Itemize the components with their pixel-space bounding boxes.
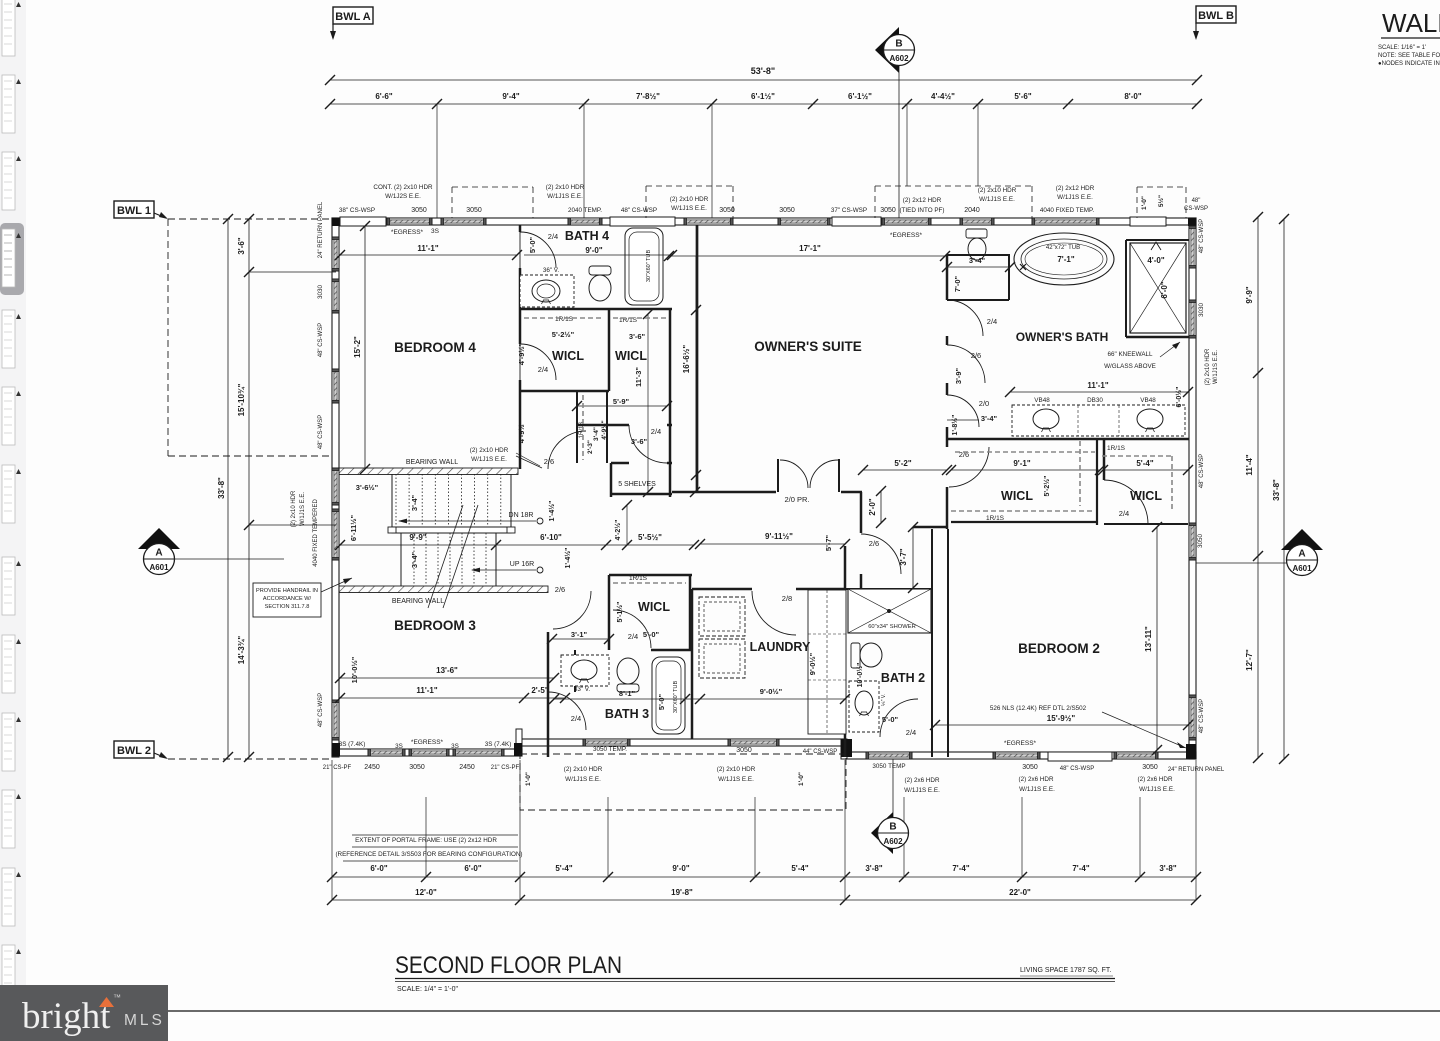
svg-text:A601: A601 <box>1292 564 1312 573</box>
svg-text:W/1J1S E.E.: W/1J1S E.E. <box>1057 194 1093 201</box>
svg-text:4'-4½": 4'-4½" <box>931 92 955 101</box>
svg-text:4'-2½": 4'-2½" <box>614 520 622 541</box>
svg-text:30"X60" TUB: 30"X60" TUB <box>673 681 679 714</box>
svg-text:DB30: DB30 <box>1087 397 1103 404</box>
svg-text:9'-0½": 9'-0½" <box>808 652 817 675</box>
svg-text:BWL A: BWL A <box>335 11 370 23</box>
svg-text:36" V.: 36" V. <box>543 267 560 274</box>
svg-text:3'-6": 3'-6" <box>629 332 646 341</box>
svg-text:33'-8": 33'-8" <box>217 477 226 499</box>
svg-text:BATH 4: BATH 4 <box>565 229 609 243</box>
marker A/A601 left <box>174 558 284 560</box>
svg-text:(2) 2x6 HDR: (2) 2x6 HDR <box>1138 776 1173 783</box>
svg-text:BEDROOM 4: BEDROOM 4 <box>394 340 476 355</box>
svg-text:3050: 3050 <box>466 207 482 214</box>
svg-text:15'-2": 15'-2" <box>353 336 362 358</box>
svg-text:*EGRESS*: *EGRESS* <box>391 229 424 236</box>
svg-text:3050: 3050 <box>736 747 752 754</box>
svg-text:WICL: WICL <box>552 349 584 363</box>
svg-text:5'-0": 5'-0" <box>528 236 537 253</box>
svg-text:3'-7": 3'-7" <box>899 548 908 565</box>
svg-text:9'-9": 9'-9" <box>1245 286 1254 303</box>
svg-text:(REFERENCE DETAIL 3/S503 FOR B: (REFERENCE DETAIL 3/S503 FOR BEARING CON… <box>335 851 522 858</box>
top wall windows <box>387 218 432 225</box>
svg-text:SCALE: 1/4" = 1'-0": SCALE: 1/4" = 1'-0" <box>397 986 458 993</box>
doors <box>520 232 556 268</box>
svg-text:(2) 2x6 HDR: (2) 2x6 HDR <box>1019 776 1054 783</box>
svg-text:48": 48" <box>1192 198 1201 204</box>
svg-text:11'-1": 11'-1" <box>1087 381 1108 390</box>
svg-text:(2) 2x10 HDR: (2) 2x10 HDR <box>291 490 297 527</box>
svg-text:SCALE: 1/16" = 1': SCALE: 1/16" = 1' <box>1378 45 1426 51</box>
svg-text:W/1J2S E.E.: W/1J2S E.E. <box>385 193 421 200</box>
svg-text:2450: 2450 <box>459 764 475 771</box>
svg-text:9'-1": 9'-1" <box>1013 459 1030 468</box>
svg-text:3'-4": 3'-4" <box>969 256 986 265</box>
svg-text:6'-0½": 6'-0½" <box>1175 387 1183 408</box>
svg-text:CS-WSP: CS-WSP <box>1184 206 1208 212</box>
svg-text:(2) 2x10 HDR: (2) 2x10 HDR <box>546 184 585 191</box>
svg-text:(TIED INTO PF): (TIED INTO PF) <box>899 207 944 214</box>
svg-text:5½": 5½" <box>1157 195 1165 207</box>
svg-text:BEDROOM 3: BEDROOM 3 <box>394 618 476 633</box>
svg-text:2'-5": 2'-5" <box>531 686 548 695</box>
svg-text:BEARING WALL: BEARING WALL <box>392 598 444 605</box>
bath3 fixtures <box>561 655 609 686</box>
svg-text:3'-8": 3'-8" <box>1159 864 1176 873</box>
svg-text:3'-9": 3'-9" <box>954 367 963 384</box>
svg-text:1'-0": 1'-0" <box>525 772 532 786</box>
svg-text:3050: 3050 <box>1197 534 1204 549</box>
svg-text:6'-1½": 6'-1½" <box>751 92 775 101</box>
svg-text:VB48: VB48 <box>1034 397 1050 404</box>
svg-text:1R/1S: 1R/1S <box>1107 445 1126 452</box>
svg-text:A: A <box>1298 549 1305 560</box>
svg-text:1'-0": 1'-0" <box>798 772 805 786</box>
svg-text:6'-1½": 6'-1½" <box>848 92 872 101</box>
svg-text:3'-4": 3'-4" <box>410 494 419 511</box>
owner bath fixtures <box>1014 233 1114 285</box>
svg-text:7'-1": 7'-1" <box>1057 255 1074 264</box>
interior walls <box>519 225 522 232</box>
svg-text:526 NLS (12.4K) REF DTL 2/S502: 526 NLS (12.4K) REF DTL 2/S502 <box>990 705 1087 712</box>
svg-text:21" CS-PF: 21" CS-PF <box>491 765 520 771</box>
svg-text:2040 TEMP.: 2040 TEMP. <box>568 207 602 214</box>
svg-text:1'-8½": 1'-8½" <box>951 415 959 436</box>
svg-text:2/0: 2/0 <box>979 399 989 408</box>
svg-text:2450: 2450 <box>364 764 380 771</box>
svg-text:⅙" V.: ⅙" V. <box>881 694 887 706</box>
svg-text:●NODES INDICATE INT: ●NODES INDICATE INT <box>1378 61 1440 67</box>
svg-text:OWNER'S SUITE: OWNER'S SUITE <box>754 339 861 354</box>
svg-text:9'-0½": 9'-0½" <box>760 687 783 696</box>
svg-text:5'-5½": 5'-5½" <box>638 533 662 542</box>
svg-text:6'-10": 6'-10" <box>540 533 562 542</box>
svg-text:(2) 2x10 HDR: (2) 2x10 HDR <box>717 766 756 773</box>
marker A/A601 right <box>1196 562 1288 564</box>
svg-text:W/1J1S E.E.: W/1J1S E.E. <box>904 787 940 794</box>
svg-text:VB48: VB48 <box>1140 397 1156 404</box>
svg-text:CONT. (2) 2x10 HDR: CONT. (2) 2x10 HDR <box>373 184 433 191</box>
svg-text:3050: 3050 <box>779 207 795 214</box>
bearing wall hatched <box>339 468 518 475</box>
marker B/A602 bottom <box>892 759 894 818</box>
svg-text:15'-9½": 15'-9½" <box>1047 714 1076 723</box>
svg-text:5'-4": 5'-4" <box>791 864 808 873</box>
svg-text:5'-2": 5'-2" <box>894 459 911 468</box>
svg-text:A602: A602 <box>883 837 903 846</box>
left dims <box>227 219 229 757</box>
svg-text:5'-0": 5'-0" <box>882 715 899 724</box>
svg-text:W/1J1S E.E.: W/1J1S E.E. <box>547 193 583 200</box>
svg-text:WICL: WICL <box>638 600 670 614</box>
svg-text:48" CS-WSP: 48" CS-WSP <box>318 693 324 727</box>
svg-text:4'-9½": 4'-9½" <box>600 420 608 439</box>
svg-text:17'-1": 17'-1" <box>799 244 821 253</box>
svg-text:10'-0½": 10'-0½" <box>350 656 359 683</box>
svg-text:6'-6": 6'-6" <box>375 92 392 101</box>
svg-text:2/6: 2/6 <box>544 457 554 466</box>
bright mls logo <box>0 985 168 1041</box>
svg-text:42"x72" TUB: 42"x72" TUB <box>1046 245 1080 251</box>
svg-text:WICL: WICL <box>615 349 647 363</box>
svg-text:38" CS-WSP: 38" CS-WSP <box>339 207 375 214</box>
svg-text:6'-0": 6'-0" <box>1160 281 1169 298</box>
svg-text:3S: 3S <box>431 228 440 235</box>
svg-text:W/1J1S E.E.: W/1J1S E.E. <box>1213 350 1219 384</box>
svg-text:BATH 2: BATH 2 <box>881 671 925 685</box>
svg-text:3050: 3050 <box>1022 764 1038 771</box>
svg-text:(2) 2x12 HDR: (2) 2x12 HDR <box>1056 185 1095 192</box>
svg-text:B: B <box>895 39 902 50</box>
svg-text:1R/1S: 1R/1S <box>629 575 648 582</box>
svg-text:5'-7": 5'-7" <box>824 534 833 551</box>
svg-text:bright: bright <box>22 996 111 1037</box>
svg-text:2/4: 2/4 <box>987 317 997 326</box>
svg-text:™: ™ <box>113 993 121 1002</box>
svg-text:22'-0": 22'-0" <box>1009 888 1031 897</box>
svg-text:9'-0": 9'-0" <box>672 864 689 873</box>
svg-text:3050: 3050 <box>411 207 427 214</box>
svg-text:11'-4": 11'-4" <box>1245 454 1254 475</box>
svg-text:60"x34" SHOWER: 60"x34" SHOWER <box>868 624 916 630</box>
svg-text:10'-0½": 10'-0½" <box>856 663 864 688</box>
svg-text:A602: A602 <box>889 54 909 63</box>
bottom wall windows <box>368 749 405 756</box>
svg-text:7'-4": 7'-4" <box>952 864 969 873</box>
svg-text:3'-4": 3'-4" <box>593 427 600 441</box>
svg-text:W/1J1S E.E.: W/1J1S E.E. <box>1139 786 1175 793</box>
svg-text:33'-8": 33'-8" <box>1272 479 1281 501</box>
svg-text:5'-2½": 5'-2½" <box>1043 476 1051 497</box>
svg-text:W/1J1S E.E.: W/1J1S E.E. <box>300 492 306 526</box>
svg-text:11'-3": 11'-3" <box>634 367 643 387</box>
svg-text:(2) 2x10 HDR: (2) 2x10 HDR <box>978 187 1017 194</box>
svg-text:48" CS-WSP: 48" CS-WSP <box>1199 454 1205 488</box>
svg-text:W/GLASS ABOVE: W/GLASS ABOVE <box>1104 363 1156 370</box>
svg-text:3050: 3050 <box>1142 764 1158 771</box>
svg-text:W/1J1S E.E.: W/1J1S E.E. <box>718 776 754 783</box>
right dims <box>1257 217 1259 758</box>
interior dims <box>340 254 517 256</box>
svg-text:1'-4½": 1'-4½" <box>548 501 556 522</box>
marker B/A602 top <box>898 66 900 218</box>
handrail note box <box>253 583 321 617</box>
marker BWL B <box>1196 6 1236 23</box>
svg-text:3050: 3050 <box>409 764 425 771</box>
right wall windows <box>1189 226 1196 268</box>
svg-text:13'-6": 13'-6" <box>436 666 458 675</box>
svg-text:BATH 3: BATH 3 <box>605 707 649 721</box>
svg-text:3'-6": 3'-6" <box>237 237 246 254</box>
svg-text:(2) 2x12 HDR: (2) 2x12 HDR <box>903 197 942 204</box>
svg-text:9'-9": 9'-9" <box>409 533 426 542</box>
svg-text:W/1J1S E.E.: W/1J1S E.E. <box>979 196 1015 203</box>
marker BWL A <box>333 7 373 24</box>
left wall windows <box>332 237 339 271</box>
svg-text:9'-11½": 9'-11½" <box>765 532 793 541</box>
svg-text:5'-4": 5'-4" <box>1136 459 1153 468</box>
svg-text:2/4: 2/4 <box>571 714 581 723</box>
svg-text:PROVIDE HANDRAIL IN: PROVIDE HANDRAIL IN <box>256 588 318 594</box>
svg-text:19'-8": 19'-8" <box>671 888 693 897</box>
svg-text:(2) 2x10 HDR: (2) 2x10 HDR <box>670 196 709 203</box>
svg-text:2/8: 2/8 <box>782 594 792 603</box>
svg-text:W/1J1S E.E.: W/1J1S E.E. <box>671 205 707 212</box>
svg-text:W/1J1S E.E.: W/1J1S E.E. <box>1019 786 1055 793</box>
svg-text:14'-3¾": 14'-3¾" <box>237 636 246 665</box>
svg-text:LIVING SPACE 1787 SQ. FT.: LIVING SPACE 1787 SQ. FT. <box>1020 967 1111 974</box>
svg-text:30"X60" TUB: 30"X60" TUB <box>646 250 652 283</box>
svg-text:A601: A601 <box>149 563 169 572</box>
svg-text:33" V.: 33" V. <box>574 686 591 693</box>
svg-text:48" CS-WSP: 48" CS-WSP <box>1199 699 1205 733</box>
svg-text:3030: 3030 <box>317 285 324 300</box>
svg-text:A: A <box>155 548 162 559</box>
svg-text:SECOND FLOOR PLAN: SECOND FLOOR PLAN <box>395 952 622 979</box>
svg-text:5'-9": 5'-9" <box>613 397 630 406</box>
svg-text:2/0 PR.: 2/0 PR. <box>784 495 809 504</box>
dashed lines <box>168 218 332 220</box>
svg-text:9'-4": 9'-4" <box>502 92 519 101</box>
svg-text:3050: 3050 <box>719 207 735 214</box>
svg-text:*EGRESS*: *EGRESS* <box>890 232 923 239</box>
svg-text:5'-0": 5'-0" <box>643 630 660 639</box>
bath2 fixtures <box>848 589 931 633</box>
svg-text:3S: 3S <box>451 743 459 750</box>
svg-text:3030: 3030 <box>1198 303 1205 318</box>
svg-text:6'-0": 6'-0" <box>464 864 481 873</box>
svg-text:2040: 2040 <box>964 207 980 214</box>
svg-text:2/4: 2/4 <box>538 365 548 374</box>
svg-text:8'-0": 8'-0" <box>1124 92 1141 101</box>
svg-text:3050: 3050 <box>880 207 896 214</box>
svg-text:2/6: 2/6 <box>971 351 981 360</box>
svg-text:4040 FIXED TEMP.: 4040 FIXED TEMP. <box>1040 207 1095 214</box>
svg-text:2/4: 2/4 <box>906 728 916 737</box>
svg-text:48" CS-WSP: 48" CS-WSP <box>1199 219 1205 253</box>
svg-text:4040 FIXED TEMPERED: 4040 FIXED TEMPERED <box>313 499 319 567</box>
svg-text:LAUNDRY: LAUNDRY <box>750 640 811 654</box>
svg-text:53'-8": 53'-8" <box>751 66 775 76</box>
svg-text:2/4: 2/4 <box>548 232 558 241</box>
svg-text:2/4: 2/4 <box>628 632 638 641</box>
svg-text:W/1J1S E.E.: W/1J1S E.E. <box>565 776 601 783</box>
bath4 fixtures <box>520 275 574 307</box>
svg-text:2'-0": 2'-0" <box>868 498 877 515</box>
svg-text:WALL: WALL <box>1382 8 1440 38</box>
svg-text:48" CS-WSP: 48" CS-WSP <box>318 415 324 449</box>
svg-text:WICL: WICL <box>1001 489 1033 503</box>
svg-text:6'-0": 6'-0" <box>370 864 387 873</box>
svg-text:5'-6": 5'-6" <box>1014 92 1031 101</box>
svg-text:UP 16R: UP 16R <box>510 561 534 568</box>
marker BWL 2 <box>114 741 154 758</box>
svg-text:9'-0": 9'-0" <box>585 246 602 255</box>
laundry fixtures <box>699 597 745 636</box>
svg-text:BWL 1: BWL 1 <box>117 205 151 217</box>
svg-text:(2) 2x10 HDR: (2) 2x10 HDR <box>564 766 603 773</box>
svg-text:DN 18R: DN 18R <box>509 512 534 519</box>
marker BWL 1 <box>114 201 154 218</box>
svg-text:2/6: 2/6 <box>555 585 565 594</box>
svg-text:W/1J1S E.E.: W/1J1S E.E. <box>471 456 507 463</box>
svg-text:5'-2½": 5'-2½" <box>552 330 575 339</box>
svg-text:5'-4": 5'-4" <box>555 864 572 873</box>
svg-text:BEDROOM 2: BEDROOM 2 <box>1018 641 1100 656</box>
svg-text:4'-9½": 4'-9½" <box>517 342 526 365</box>
svg-text:11'-1": 11'-1" <box>417 244 438 253</box>
svg-text:3'-8": 3'-8" <box>865 864 882 873</box>
svg-text:48" CS-WSP: 48" CS-WSP <box>1060 766 1094 772</box>
svg-text:2'-3": 2'-3" <box>587 440 594 454</box>
svg-text:3S (7.4K): 3S (7.4K) <box>485 741 512 748</box>
svg-text:2/6: 2/6 <box>869 539 879 548</box>
svg-text:3'-4": 3'-4" <box>410 551 419 568</box>
svg-text:B: B <box>889 822 896 833</box>
svg-text:(2) 2x10 HDR: (2) 2x10 HDR <box>470 447 509 454</box>
svg-text:66" KNEEWALL: 66" KNEEWALL <box>1107 351 1153 358</box>
svg-text:5'-1½": 5'-1½" <box>616 602 624 623</box>
svg-text:2/4: 2/4 <box>651 427 661 436</box>
svg-text:3'-4": 3'-4" <box>981 414 998 423</box>
svg-text:1R/1S: 1R/1S <box>579 422 585 439</box>
svg-text:3'-6": 3'-6" <box>631 437 648 446</box>
svg-text:48" CS-WSP: 48" CS-WSP <box>318 323 324 357</box>
svg-text:6'-11½": 6'-11½" <box>349 514 358 541</box>
svg-text:5'-0": 5'-0" <box>657 693 666 710</box>
stairs <box>391 474 393 527</box>
svg-text:1R/1S: 1R/1S <box>986 515 1005 522</box>
svg-text:7'-8½": 7'-8½" <box>636 92 660 101</box>
svg-text:7'-0": 7'-0" <box>953 275 962 292</box>
svg-text:1'-4½": 1'-4½" <box>564 548 572 569</box>
svg-text:MLS: MLS <box>124 1012 165 1029</box>
svg-text:3050 TEMP: 3050 TEMP <box>872 763 905 770</box>
svg-text:48" CS-WSP: 48" CS-WSP <box>621 207 657 214</box>
svg-text:NOTE: SEE TABLE FOR: NOTE: SEE TABLE FOR <box>1378 53 1440 59</box>
sidebar thumbnails <box>0 0 26 1041</box>
svg-text:15'-10¾": 15'-10¾" <box>237 383 246 416</box>
svg-text:11'-1": 11'-1" <box>416 686 437 695</box>
svg-text:ACCORDANCE W/: ACCORDANCE W/ <box>263 596 312 602</box>
svg-text:12'-0": 12'-0" <box>415 888 437 897</box>
svg-text:4'-9½": 4'-9½" <box>517 420 526 443</box>
svg-text:7'-4": 7'-4" <box>1072 864 1089 873</box>
svg-text:24" RETURN PANEL: 24" RETURN PANEL <box>1168 767 1225 773</box>
svg-text:*EGRESS*: *EGRESS* <box>411 739 444 746</box>
svg-text:37" CS-WSP: 37" CS-WSP <box>831 207 867 214</box>
svg-text:BWL B: BWL B <box>1198 10 1234 22</box>
svg-text:24" RETURN PANEL: 24" RETURN PANEL <box>318 201 324 258</box>
svg-text:2/4: 2/4 <box>1119 509 1129 518</box>
svg-text:1'-0": 1'-0" <box>1141 196 1148 210</box>
svg-text:BEARING WALL: BEARING WALL <box>406 459 458 466</box>
svg-text:8'-1": 8'-1" <box>619 689 636 698</box>
svg-text:OWNER'S BATH: OWNER'S BATH <box>1016 330 1109 344</box>
svg-text:BWL 2: BWL 2 <box>117 745 151 757</box>
svg-text:(2) 2x10 HDR: (2) 2x10 HDR <box>1205 348 1211 385</box>
svg-text:3S (7.4K): 3S (7.4K) <box>339 741 366 748</box>
svg-text:1R/1S: 1R/1S <box>555 316 574 323</box>
svg-text:WICL: WICL <box>1130 489 1162 503</box>
svg-text:21" CS-PF: 21" CS-PF <box>323 765 352 771</box>
svg-text:SECTION 311.7.8: SECTION 311.7.8 <box>265 604 310 610</box>
svg-text:EXTENT OF PORTAL FRAME: USE: EXTENT OF PORTAL FRAME: USE (2) 2x12 HDR <box>355 837 497 844</box>
exterior walls <box>332 218 1196 225</box>
svg-text:3050 TEMP.: 3050 TEMP. <box>593 746 627 753</box>
svg-text:3'-6½": 3'-6½" <box>356 483 379 492</box>
svg-text:3S: 3S <box>395 743 403 750</box>
svg-text:16'-6½": 16'-6½" <box>682 345 691 374</box>
svg-text:5 SHELVES: 5 SHELVES <box>618 481 656 488</box>
svg-text:3'-1": 3'-1" <box>571 630 588 639</box>
svg-text:(2) 2x6 HDR: (2) 2x6 HDR <box>905 777 940 784</box>
svg-text:*EGRESS*: *EGRESS* <box>1004 740 1037 747</box>
svg-text:4'-0": 4'-0" <box>1147 256 1164 265</box>
svg-text:13'-11": 13'-11" <box>1144 626 1153 652</box>
bottom dims <box>332 876 1196 878</box>
svg-text:12'-7": 12'-7" <box>1245 649 1254 671</box>
top dims <box>330 79 1197 81</box>
